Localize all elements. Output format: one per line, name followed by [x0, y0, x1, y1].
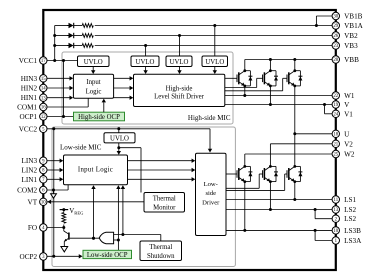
pin 3 OCP2 [20, 253, 47, 261]
wire VT to thermal monitor [47, 201, 144, 203]
wire VCC1 to high-side OCP [63, 61, 65, 117]
wire VCC2 to UVLO7 [118, 129, 120, 133]
transistor Q3 (IGBT) [287, 69, 300, 87]
svg-text:Thermal: Thermal [149, 244, 172, 251]
svg-text:13: 13 [333, 208, 338, 213]
wire VCC1 to UVLO [47, 60, 78, 62]
wire VB3 rail [57, 45, 69, 47]
wire LIN2 to input logic [47, 169, 61, 171]
svg-text:LS2: LS2 [344, 206, 356, 214]
wire Q2 emitter [269, 86, 271, 105]
svg-text:28: 28 [333, 58, 338, 63]
svg-text:30: 30 [333, 15, 338, 20]
svg-text:22: 22 [333, 94, 338, 99]
bootstrap diode D3 [67, 43, 76, 48]
ground COM symbol at Q7 [61, 247, 68, 252]
svg-text:12: 12 [41, 115, 46, 120]
wire VB2 rail [57, 35, 69, 37]
svg-text:Input: Input [86, 79, 100, 86]
svg-text:HIN1: HIN1 [21, 94, 38, 102]
svg-text:UVLO: UVLO [110, 136, 129, 143]
bootstrap resistor R2 [82, 34, 93, 38]
wire HIN1 to input logic [47, 97, 71, 99]
svg-text:UVLO: UVLO [170, 59, 189, 66]
logic block U8 Input Logic (low-side) [64, 155, 128, 185]
wire LS3B net [226, 229, 332, 231]
svg-text:High-side OCP: High-side OCP [78, 114, 120, 121]
svg-text:LIN3: LIN3 [22, 157, 38, 165]
bootstrap diode D2 [67, 33, 76, 38]
wire gate input lower from low-side OCP [114, 239, 119, 241]
wire V to V1 [324, 105, 326, 114]
svg-text:HIN2: HIN2 [21, 85, 38, 93]
pin 19 V [332, 101, 350, 109]
wire UVLO1 to input logic [92, 67, 94, 72]
svg-text:23: 23 [333, 44, 338, 49]
svg-text:LIN1: LIN1 [22, 176, 38, 184]
wire LS2 net [226, 209, 332, 211]
wire Q6 emitter [294, 182, 296, 200]
svg-text:Low-side OCP: Low-side OCP [87, 252, 128, 259]
wire driver to Q5 gate [226, 187, 259, 189]
bootstrap resistor R1 [82, 24, 93, 28]
wire COM1 to input logic [47, 106, 88, 108]
block Thermal Monitor [144, 193, 185, 213]
wire OCP1 to high-side OCP block [47, 116, 74, 118]
svg-text:Level Shift Driver: Level Shift Driver [154, 93, 205, 100]
pin 8 LIN2 [22, 166, 47, 174]
svg-text:Input Logic: Input Logic [78, 166, 113, 173]
pin 11 LS1 [332, 196, 356, 204]
pin 15 HIN3 [21, 75, 47, 83]
svg-text:21: 21 [333, 143, 338, 148]
wire W1 net [225, 95, 333, 97]
wire Q3 collector [294, 60, 296, 71]
svg-text:11: 11 [333, 198, 338, 203]
wire LIN1 to input logic [47, 178, 61, 180]
wire driver to Q6 gate [226, 189, 285, 191]
power VREG terminal [60, 209, 69, 211]
pin 2 LS2 [332, 215, 356, 223]
wire Q1 emitter [244, 86, 246, 96]
gate U10 (wired-OR to FO) [99, 232, 113, 243]
transistor Q6 (IGBT) [287, 165, 300, 183]
wire VCC1 to bootstrap diodes [54, 26, 56, 61]
wire logic to low driver c [128, 178, 193, 180]
comparator block High-side OCP [74, 112, 125, 121]
svg-text:UVLO: UVLO [136, 59, 155, 66]
wire high-side OCP to input logic [103, 102, 105, 112]
diode DQ2 (freewheel of Q2) [274, 71, 278, 86]
pin 4 FO [28, 224, 47, 232]
pin 23 VB3 [332, 42, 358, 50]
svg-text:VCC1: VCC1 [19, 57, 38, 65]
wire HIN3 to input logic [47, 77, 71, 79]
wire driver to Q4 gate [226, 173, 237, 175]
wire gate output to Q7 base [70, 237, 100, 239]
wire LIN3 to input logic [47, 160, 61, 162]
svg-text:14: 14 [41, 87, 46, 92]
diode DQ6 (freewheel of Q6) [298, 166, 302, 181]
svg-text:COM2: COM2 [17, 187, 37, 195]
pin 6 COM2 [17, 186, 47, 194]
svg-text:Shutdown: Shutdown [147, 253, 175, 260]
wire VB3 supply to UVLO2 and driver [145, 46, 147, 72]
pin 10 VT [28, 198, 47, 206]
wire logic to driver b [114, 87, 131, 89]
transistor Q7 (FO open collector) [64, 231, 69, 247]
wire low-side OCP up [117, 240, 119, 250]
wire LS2 pair bracket [314, 210, 316, 219]
wire VCC2 to OCP2 comparator [53, 129, 55, 256]
wire driver to Q1 gate [225, 77, 238, 79]
svg-text:FO: FO [28, 224, 37, 232]
wire VB1B to VB1A net [316, 15, 332, 17]
op-block UVLO U7 (low-side) [104, 133, 135, 143]
low-side MIC region [52, 127, 235, 267]
svg-text:Low-side MIC: Low-side MIC [60, 144, 102, 152]
transistor Q5 (IGBT) [263, 165, 276, 183]
svg-text:VB1A: VB1A [344, 22, 364, 30]
wire logic to driver a [114, 77, 131, 79]
wire VCC2 rail [47, 128, 210, 130]
pin 13 LS2 [332, 206, 356, 214]
svg-text:LS1: LS1 [344, 196, 356, 204]
bootstrap resistor R3 [82, 44, 93, 48]
diode DQ4 (freewheel of Q4) [248, 166, 252, 181]
svg-text:High-side MIC: High-side MIC [188, 114, 231, 122]
wire COM2 to input logic [47, 189, 68, 191]
high-side MIC region [62, 52, 233, 124]
svg-text:Monitor: Monitor [153, 204, 176, 211]
wire VB1 supply to UVLO4 and driver [214, 26, 216, 72]
svg-text:18: 18 [333, 133, 338, 138]
svg-text:LS3A: LS3A [344, 237, 362, 245]
wire UVLO7 to input logic [118, 143, 120, 153]
svg-text:HIN3: HIN3 [21, 75, 38, 83]
svg-text:W2: W2 [344, 151, 355, 159]
svg-text:COM1: COM1 [17, 104, 37, 112]
op-block UVLO U2 [131, 56, 159, 67]
svg-text:Low-: Low- [204, 181, 218, 188]
op-block UVLO U1 (high-side) [78, 56, 110, 67]
wire UVLO7 to thermal monitor [119, 147, 141, 149]
svg-text:VB2: VB2 [344, 32, 358, 40]
wire V2 net [269, 144, 271, 167]
diode DQ5 (freewheel of Q5) [274, 166, 278, 181]
svg-text:REG: REG [74, 211, 84, 216]
pin 25 W2 [332, 150, 355, 158]
svg-text:V: V [344, 101, 350, 109]
svg-text:VCC2: VCC2 [19, 125, 38, 133]
pin 13 HIN1 [21, 94, 47, 102]
svg-text:OCP1: OCP1 [20, 113, 38, 121]
svg-text:Driver: Driver [202, 200, 220, 207]
svg-text:Logic: Logic [86, 88, 102, 95]
pin 10 LS3B [332, 227, 361, 235]
svg-text:side: side [205, 190, 216, 197]
pin 14 HIN2 [21, 84, 47, 92]
pin 1 LS3A [332, 237, 362, 245]
wire HIN2 to input logic [47, 87, 71, 89]
pin 17 VCC1 [19, 57, 47, 65]
svg-text:LS2: LS2 [344, 215, 356, 223]
svg-text:V2: V2 [344, 140, 353, 148]
transistor Q4 (IGBT) [237, 165, 250, 183]
svg-text:10: 10 [333, 229, 338, 234]
wire logic to low driver a [128, 160, 193, 162]
svg-text:19: 19 [333, 103, 338, 108]
bootstrap diode D1 [67, 23, 76, 28]
pin 9 LIN3 [22, 157, 47, 165]
pin 26 VB2 [332, 32, 358, 40]
wire thermal shutdown to input logic [122, 189, 124, 235]
block Thermal Shutdown [140, 241, 182, 261]
wire VB1A rail [57, 25, 69, 27]
wire logic to low driver b [128, 169, 193, 171]
transistor Q2 (IGBT) [263, 69, 276, 87]
wire gate input upper from thermal shutdown [114, 234, 161, 236]
pin 21 V2 [332, 140, 353, 148]
wire VB2 supply to UVLO3 and driver [179, 36, 181, 72]
op-block UVLO U3 [166, 56, 192, 67]
svg-text:29: 29 [333, 24, 338, 29]
wire low-side OCP to input logic [117, 189, 119, 240]
svg-text:U: U [344, 130, 350, 138]
wire Q2 collector [269, 60, 271, 71]
svg-text:26: 26 [333, 34, 338, 39]
wire FO node [47, 227, 64, 229]
comparator block Low-side OCP [83, 250, 132, 258]
pin 28 VBB [332, 56, 359, 64]
svg-text:17: 17 [41, 59, 46, 64]
wire Q6 collector to U net [294, 134, 296, 167]
svg-text:High-side: High-side [166, 85, 193, 92]
driver block U9 Low-side Driver [196, 153, 227, 235]
diode DQ3 (freewheel of Q3) [298, 71, 302, 86]
wire Q4 emitter [244, 182, 246, 231]
diode DQ1 (freewheel of Q1) [248, 71, 252, 86]
pin 29 VB1A [332, 22, 364, 30]
svg-text:VB3: VB3 [344, 42, 358, 50]
svg-text:UVLO: UVLO [84, 59, 103, 66]
pin 7 LIN1 [22, 176, 47, 184]
op-block UVLO U4 [202, 56, 228, 67]
transistor Q1 (IGBT) [237, 69, 250, 87]
pin 22 W1 [332, 92, 355, 100]
svg-text:W1: W1 [344, 92, 355, 100]
wire FO feedback to input logic [93, 189, 95, 238]
wire driver to Q2 gate [225, 87, 257, 89]
pin 16 COM1 [17, 103, 47, 111]
wire W2 net [244, 154, 246, 166]
pin 12 OCP1 [20, 113, 47, 121]
pin 24 V1 [332, 110, 353, 118]
resistor R4 pull-up [62, 213, 66, 224]
svg-text:V1: V1 [344, 110, 353, 118]
svg-text:LIN2: LIN2 [22, 167, 38, 175]
IC module outline [43, 10, 336, 270]
svg-text:LS3B: LS3B [344, 227, 361, 235]
svg-text:16: 16 [41, 106, 46, 111]
svg-text:OCP2: OCP2 [20, 253, 38, 261]
svg-text:UVLO: UVLO [205, 59, 224, 66]
pin 5 VCC2 [19, 125, 47, 133]
svg-text:VT: VT [28, 198, 38, 206]
logic block U5 Input Logic (high-side) [73, 74, 113, 98]
pin 18 U [332, 130, 350, 138]
ground COM symbol at COM2 [53, 190, 55, 194]
wire logic to driver c [114, 97, 131, 99]
pin 30 VB1B [332, 12, 363, 20]
svg-text:25: 25 [333, 153, 338, 158]
svg-text:Thermal: Thermal [153, 195, 176, 202]
svg-text:10: 10 [41, 201, 46, 206]
wire U net [295, 133, 332, 135]
driver block U6 High-side Level Shift Driver [134, 74, 225, 106]
wire OCP2 to low-side OCP block [47, 255, 80, 257]
wire Q5 emitter [269, 182, 271, 210]
svg-text:13: 13 [41, 96, 46, 101]
wire LS3 pair bracket [314, 230, 316, 240]
svg-text:15: 15 [41, 77, 46, 82]
svg-text:VB1B: VB1B [344, 13, 363, 21]
svg-text:VBB: VBB [344, 56, 359, 64]
wire LS1 net [226, 199, 332, 201]
wire Q3 emitter [294, 86, 296, 134]
svg-text:24: 24 [333, 113, 338, 118]
wire V net [225, 104, 333, 106]
wire VBB rail [245, 59, 332, 61]
wire driver to Q3 gate [225, 90, 283, 92]
